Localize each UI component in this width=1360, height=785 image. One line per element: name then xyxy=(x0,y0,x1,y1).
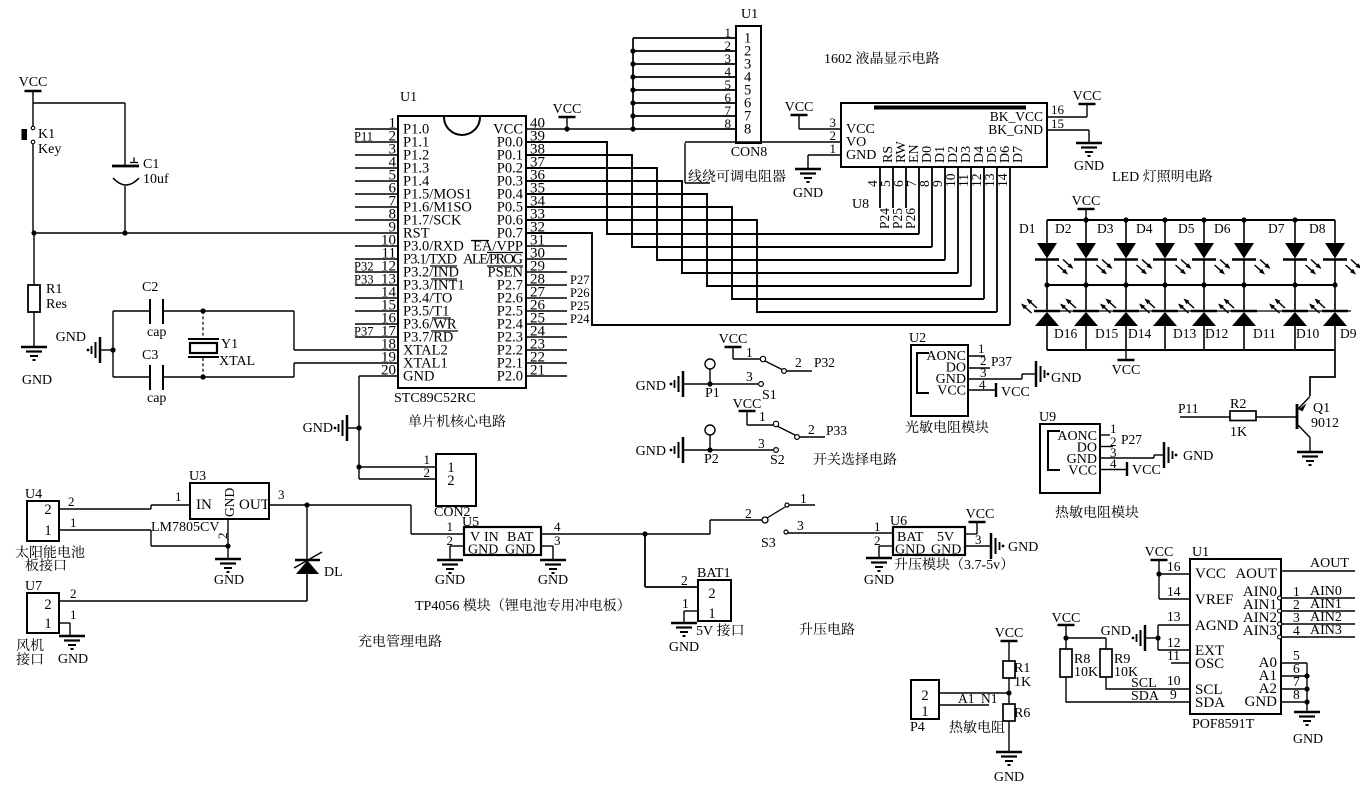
svg-text:1: 1 xyxy=(921,704,928,720)
pin 8 P1.7/SCK xyxy=(355,219,398,221)
wire U2 pin 1 xyxy=(968,355,985,357)
wire P0.2 to LCD D2 xyxy=(526,168,945,260)
wire CON8 pin 3 xyxy=(633,63,736,65)
connector CON2 body xyxy=(436,454,476,506)
svg-text:1: 1 xyxy=(70,515,77,530)
svg-text:4: 4 xyxy=(554,519,561,534)
junction LED top rail xyxy=(1201,217,1206,222)
svg-text:8: 8 xyxy=(1293,687,1300,702)
switch S1 xyxy=(733,358,760,360)
svg-text:VCC: VCC xyxy=(1145,545,1174,560)
label 开关选择电路 xyxy=(814,453,827,465)
svg-text:GND: GND xyxy=(58,652,88,667)
svg-text:2: 2 xyxy=(44,597,51,613)
regulator U3 LM7805CV body xyxy=(190,483,269,519)
svg-text:3.7-5v: 3.7-5v xyxy=(964,558,1000,573)
svg-text:4: 4 xyxy=(1110,456,1117,471)
ground at crystal xyxy=(101,349,113,351)
module U2 photoresistor body xyxy=(911,345,968,416)
svg-text:16: 16 xyxy=(1167,559,1181,574)
junction CON2 pin1 xyxy=(356,464,361,469)
ground at P2 xyxy=(682,437,685,463)
wire AIN2 xyxy=(1278,622,1282,626)
pin 5 P1.4 xyxy=(355,180,398,182)
ground at U9 pin 3 xyxy=(1163,442,1166,468)
junction LED mid rail xyxy=(1292,282,1297,287)
ground at AGND/EXT xyxy=(1146,637,1158,639)
LED D2 xyxy=(1085,220,1087,244)
wire P0.3 to LCD D3 xyxy=(526,181,958,273)
ground at Q1 collector xyxy=(1297,451,1323,454)
ground at U5 pin 2 xyxy=(437,559,463,562)
svg-text:cap: cap xyxy=(147,325,166,340)
svg-text:GND: GND xyxy=(669,640,699,655)
wire POF pin 11 OSC xyxy=(1171,662,1190,664)
wire POF pin 14 VREF xyxy=(1158,574,1160,599)
svg-text:VCC: VCC xyxy=(1132,463,1161,478)
pin 3 P1.2 xyxy=(355,154,398,156)
ground below R6 xyxy=(996,751,1022,754)
svg-text:SDA: SDA xyxy=(1195,695,1225,711)
svg-text:VCC: VCC xyxy=(1001,385,1030,400)
power VCC at LED bottom rail xyxy=(1125,350,1127,360)
power VCC at U2 pin 4 xyxy=(968,389,996,391)
pin 2 P1.1 xyxy=(355,141,398,143)
svg-text:U9: U9 xyxy=(1039,410,1056,425)
svg-text:U6: U6 xyxy=(890,514,907,529)
junction DL branch xyxy=(304,502,309,507)
pin 10 P3.0/RXD xyxy=(355,245,398,247)
wire U3 OUT to U5 xyxy=(269,504,411,506)
svg-text:IN: IN xyxy=(196,497,212,513)
junction LED mid rail xyxy=(1123,282,1128,287)
wire P0.1 to LCD D1 xyxy=(526,155,932,247)
LED D5 xyxy=(1203,220,1205,244)
svg-text:C2: C2 xyxy=(142,280,158,295)
label 升压电路 xyxy=(800,622,813,635)
diode DL zener xyxy=(306,505,308,560)
op-amp U1 STC89C52RC MCU body xyxy=(398,116,526,388)
svg-text:N1: N1 xyxy=(981,691,998,706)
LED D9 xyxy=(1334,285,1336,311)
wire R2 to Q1 base xyxy=(1256,416,1296,418)
svg-text:4: 4 xyxy=(979,377,986,392)
svg-text:D5: D5 xyxy=(1178,221,1195,236)
power VCC at U9 pin 4 xyxy=(1100,469,1127,471)
svg-text:S2: S2 xyxy=(770,453,785,468)
pin 27 P2.6 xyxy=(526,297,567,299)
junction VCC stem xyxy=(564,126,569,131)
wire LCD pin 6 EN xyxy=(905,167,907,208)
wire P0.4 to LCD D4 xyxy=(526,194,971,286)
svg-text:VCC: VCC xyxy=(1112,363,1141,378)
wire LCD pin 9 D2 xyxy=(944,167,946,260)
ground at BAT1 pin 1 xyxy=(671,622,697,625)
wire CON8 pin 2 xyxy=(633,50,736,52)
svg-text:1: 1 xyxy=(44,523,51,539)
pin 24 P2.3 xyxy=(526,336,567,338)
wire U9 pin 3 to ground xyxy=(1100,457,1154,459)
svg-text:1: 1 xyxy=(746,345,753,360)
connector U4 solar panel xyxy=(27,501,59,541)
pin 28 P2.7 xyxy=(526,284,567,286)
wire LED bottom rail xyxy=(1047,349,1335,351)
svg-text:P4: P4 xyxy=(910,720,925,735)
capacitor C1 10uf xyxy=(124,103,126,165)
svg-text:14: 14 xyxy=(1167,584,1181,599)
LED D12 xyxy=(1203,285,1205,311)
ground at U6 pin 3 xyxy=(990,533,993,559)
svg-text:5V: 5V xyxy=(696,624,713,639)
svg-text:15: 15 xyxy=(1051,116,1064,131)
ground at U7 pin 1 xyxy=(59,635,85,638)
svg-text:P32: P32 xyxy=(814,355,835,370)
adc U1 POF8591T body xyxy=(1190,559,1281,714)
wire XTAL1 to pin 19 xyxy=(293,363,295,377)
svg-text:GND: GND xyxy=(1183,449,1213,464)
svg-text:AIN3: AIN3 xyxy=(1310,623,1342,638)
svg-text:GND: GND xyxy=(303,421,333,436)
LED D6 xyxy=(1243,220,1245,244)
pin 4 P1.3 xyxy=(355,167,398,169)
svg-text:13: 13 xyxy=(1167,609,1181,624)
wire U4 pin 1 to GND rail xyxy=(59,529,151,531)
svg-text:POF8591T: POF8591T xyxy=(1192,717,1255,732)
svg-text:VCC: VCC xyxy=(1195,566,1226,582)
svg-text:GND: GND xyxy=(1074,159,1104,174)
wire LCD pin 4 RS xyxy=(879,167,881,208)
wire U9 pin 1 xyxy=(1100,434,1110,436)
svg-text:U1: U1 xyxy=(1192,545,1209,560)
junction CON8 bus xyxy=(630,74,635,79)
svg-text:1: 1 xyxy=(708,606,715,622)
svg-text:D10: D10 xyxy=(1296,326,1319,341)
wire XTAL2 to pin 18 xyxy=(293,311,295,350)
ground at POF address pins xyxy=(1294,711,1320,714)
svg-text:1K: 1K xyxy=(1014,675,1031,690)
resistor R6 xyxy=(1003,704,1015,721)
svg-text:GND: GND xyxy=(864,573,894,588)
wire AIN0 xyxy=(1278,596,1282,600)
switch S2 xyxy=(747,424,773,426)
wire U3 GND pin 2 xyxy=(227,519,229,559)
wire POF pin 12 EXT xyxy=(1157,625,1159,650)
wire VCC to C1 branch xyxy=(33,102,125,104)
wire POF GND pin xyxy=(1281,701,1307,703)
pin 1 P1.0 xyxy=(355,128,398,130)
wire P4 pin 2 A1 xyxy=(939,692,1009,694)
svg-text:P2: P2 xyxy=(704,452,719,467)
pin 26 P2.5 xyxy=(526,310,567,312)
LED D16 xyxy=(1046,285,1048,311)
connector U7 fan xyxy=(27,593,59,633)
pin 15 P3.5/T1 xyxy=(355,310,398,312)
wire P4 pin 1 N1 xyxy=(939,704,989,706)
svg-text:DL: DL xyxy=(324,565,343,580)
svg-text:16: 16 xyxy=(1051,102,1065,117)
svg-text:D7: D7 xyxy=(1011,146,1026,163)
junction LED mid rail xyxy=(1044,282,1049,287)
junction CON8 bus xyxy=(630,126,635,131)
wire LCD pin 16 BK_VCC xyxy=(1047,116,1087,118)
junction LED top rail xyxy=(1123,217,1128,222)
svg-text:S1: S1 xyxy=(762,388,777,403)
svg-text:2: 2 xyxy=(921,688,928,704)
junction CON8 bus xyxy=(630,48,635,53)
svg-text:P24: P24 xyxy=(570,312,590,326)
svg-text:D13: D13 xyxy=(1173,326,1196,341)
junction AGND xyxy=(1155,635,1160,640)
push button P1 xyxy=(705,359,715,369)
wire U6 pin 3 to ground xyxy=(965,545,990,547)
svg-text:GND: GND xyxy=(468,543,498,558)
svg-text:14: 14 xyxy=(995,173,1010,187)
junction CON8 bus xyxy=(630,100,635,105)
wire U2 pin 3 to ground xyxy=(968,378,1022,380)
svg-text:2: 2 xyxy=(708,586,715,602)
svg-text:GND: GND xyxy=(505,543,535,558)
wire U6 pin 2 to ground xyxy=(879,545,893,547)
svg-text:2: 2 xyxy=(681,573,688,588)
pin 11 P3.1/TXD xyxy=(355,258,398,260)
wire P0.0 to LCD D0 xyxy=(526,142,919,234)
svg-text:Y1: Y1 xyxy=(221,337,238,352)
wire POF pin 13 AGND xyxy=(1158,624,1190,626)
wire VCC to R9 xyxy=(1066,637,1106,639)
junction LED top rail xyxy=(1292,217,1297,222)
pin 30 ALE/PROG xyxy=(526,258,567,260)
svg-text:D7: D7 xyxy=(1268,221,1285,236)
svg-text:GND: GND xyxy=(793,186,823,201)
resistor R8 10K xyxy=(1060,649,1072,677)
svg-text:3: 3 xyxy=(758,436,765,451)
wire P0.7 to LCD D7 xyxy=(526,233,1010,325)
svg-text:D15: D15 xyxy=(1095,326,1118,341)
wire LCD pin 1 GND xyxy=(808,154,841,156)
svg-text:GND: GND xyxy=(895,543,925,558)
wire CON8 pin 4 xyxy=(633,76,736,78)
wire A2 xyxy=(1281,688,1307,690)
wire to CON2 pin 1 xyxy=(359,466,436,468)
svg-text:R2: R2 xyxy=(1230,397,1246,412)
svg-text:3: 3 xyxy=(278,487,285,502)
svg-text:GND: GND xyxy=(22,373,52,388)
svg-text:P33: P33 xyxy=(826,423,847,438)
wire LCD pin 8 D1 xyxy=(931,167,933,247)
junction Y1 bottom xyxy=(200,374,205,379)
pin 14 P3.4/TO xyxy=(355,297,398,299)
svg-text:GND: GND xyxy=(636,444,666,459)
svg-text:VCC: VCC xyxy=(937,384,966,399)
wire U7 pin 1 to ground xyxy=(59,622,70,624)
wire LCD pin 10 D3 xyxy=(957,167,959,273)
wire RST net to MCU pin 9 xyxy=(33,232,398,234)
svg-text:GND: GND xyxy=(214,573,244,588)
svg-text:3: 3 xyxy=(746,369,753,384)
svg-text:D12: D12 xyxy=(1205,326,1228,341)
wire AIN3 xyxy=(1278,635,1282,639)
wire A1 xyxy=(1281,675,1307,677)
wire LCD pin 14 D7 xyxy=(1009,167,1011,325)
svg-text:BAT1: BAT1 xyxy=(697,566,730,581)
junction Y1 top xyxy=(200,308,205,313)
wire crystal loop left xyxy=(112,311,114,377)
junction LED mid rail xyxy=(1083,282,1088,287)
pin 22 P2.1 xyxy=(526,362,567,364)
svg-text:U3: U3 xyxy=(189,469,206,484)
junction CON8 bus xyxy=(630,87,635,92)
label 线绕可调电阻器 xyxy=(688,169,701,182)
wire CON8 pin 7 xyxy=(633,115,736,117)
module U9 thermistor body xyxy=(1040,424,1100,493)
svg-text:D16: D16 xyxy=(1054,326,1077,341)
svg-text:GND: GND xyxy=(538,573,568,588)
wire LCD pin 5 RW xyxy=(892,167,894,208)
svg-text:U7: U7 xyxy=(25,579,42,594)
svg-text:1: 1 xyxy=(44,616,51,632)
svg-text:GND: GND xyxy=(1245,694,1278,710)
ground at U3 pin 2 xyxy=(215,558,241,561)
svg-text:3: 3 xyxy=(797,518,804,533)
ground at U6 pin 2 xyxy=(866,557,892,560)
svg-text:GND: GND xyxy=(846,148,876,163)
svg-text:VCC: VCC xyxy=(553,102,582,117)
wire U5 pin 2 to ground xyxy=(450,545,464,547)
svg-text:U2: U2 xyxy=(909,331,926,346)
power VCC at U6 5V pin xyxy=(965,533,977,535)
svg-text:U1: U1 xyxy=(400,90,417,105)
LED D13 xyxy=(1164,285,1166,311)
svg-text:VCC: VCC xyxy=(733,397,762,412)
junction K1/RST xyxy=(31,230,36,235)
LED D1 xyxy=(1046,220,1048,244)
svg-text:9012: 9012 xyxy=(1311,416,1339,431)
svg-text:1: 1 xyxy=(175,489,182,504)
connector P4 body xyxy=(911,680,939,719)
pin name notation lines EA/VPP ALE/PROG xyxy=(471,240,489,242)
svg-text:VCC: VCC xyxy=(1052,611,1081,626)
svg-text:2: 2 xyxy=(68,494,75,509)
svg-text:11: 11 xyxy=(1167,648,1180,663)
svg-text:VCC: VCC xyxy=(1068,464,1097,479)
svg-text:1: 1 xyxy=(70,607,77,622)
svg-text:10: 10 xyxy=(1167,673,1181,688)
wire pin40 VCC to CON8 bus xyxy=(526,128,633,130)
svg-text:D14: D14 xyxy=(1128,326,1151,341)
battery connector BAT1 body xyxy=(698,580,731,621)
wire AIN1 xyxy=(1278,609,1282,613)
svg-text:TP4056: TP4056 xyxy=(415,599,459,614)
ground below R1 xyxy=(21,346,47,349)
svg-text:GND: GND xyxy=(1293,732,1323,747)
resistor R2 1K xyxy=(1230,411,1256,421)
svg-text:SDA: SDA xyxy=(1131,689,1160,704)
wire BAT1 pin 1 to ground xyxy=(684,610,698,612)
svg-text:U8: U8 xyxy=(852,197,869,212)
svg-text:OUT: OUT xyxy=(239,497,270,513)
wire LCD pin 13 D6 xyxy=(996,167,998,312)
svg-text:2: 2 xyxy=(447,473,454,489)
svg-text:U4: U4 xyxy=(25,487,42,502)
pin 12 P3.2/IND xyxy=(355,271,398,273)
junction R8/R9 xyxy=(1063,635,1068,640)
junction LED mid rail xyxy=(1241,282,1246,287)
svg-text:D8: D8 xyxy=(1309,221,1326,236)
svg-text:D9: D9 xyxy=(1340,326,1357,341)
svg-text:LED: LED xyxy=(1112,170,1139,185)
svg-text:Res: Res xyxy=(46,297,67,312)
junction LED top rail xyxy=(1241,217,1246,222)
label 升压模块 xyxy=(895,557,908,570)
svg-text:GND: GND xyxy=(636,379,666,394)
svg-text:AGND: AGND xyxy=(1195,618,1238,634)
wire LED top rail xyxy=(1047,219,1335,221)
svg-text:cap: cap xyxy=(147,391,166,406)
wire P0.6 to LCD D6 xyxy=(526,220,997,312)
svg-text:P1: P1 xyxy=(705,386,720,401)
svg-text:C1: C1 xyxy=(143,157,159,172)
LED D7 xyxy=(1294,220,1296,244)
svg-text:2: 2 xyxy=(215,533,230,540)
wire address bus to ground xyxy=(1306,663,1308,712)
svg-text:21: 21 xyxy=(530,363,545,379)
svg-text:1: 1 xyxy=(682,596,689,611)
LCD module U8 1602 body xyxy=(841,103,1047,167)
pin 7 P1.6/M1SO xyxy=(355,206,398,208)
svg-text:GND: GND xyxy=(222,488,237,517)
label 热敏电阻 xyxy=(950,720,963,733)
junction LED top rail xyxy=(1083,217,1088,222)
svg-text:K1: K1 xyxy=(38,127,55,142)
svg-text:U5: U5 xyxy=(462,515,479,530)
svg-text:GND: GND xyxy=(1008,540,1038,555)
switch K1 (Key) xyxy=(32,103,34,126)
wire U2 pin 2 P37 xyxy=(968,367,990,369)
ground at U2 pin 3 xyxy=(1035,361,1038,387)
junction CON8 bus xyxy=(630,61,635,66)
svg-text:P11: P11 xyxy=(354,130,373,144)
junction LED mid rail xyxy=(1162,282,1167,287)
svg-text:R6: R6 xyxy=(1014,706,1030,721)
pin 31 EA/VPP xyxy=(526,245,567,247)
svg-text:VCC: VCC xyxy=(19,75,48,90)
pin 29 PSEN xyxy=(526,271,567,273)
junction LED mid rail xyxy=(1332,282,1337,287)
svg-text:GND: GND xyxy=(1051,371,1081,386)
wire U4 pin 2 to U3 IN xyxy=(59,508,151,510)
svg-text:1: 1 xyxy=(874,519,881,534)
resistor R1 1K (divider) xyxy=(1003,661,1015,678)
svg-text:10uf: 10uf xyxy=(143,172,169,187)
svg-text:AIN3: AIN3 xyxy=(1243,623,1277,639)
wire CON8 pin 6 xyxy=(633,102,736,104)
LED D11 xyxy=(1243,285,1245,311)
LED D10 xyxy=(1294,285,1296,311)
svg-text:VCC: VCC xyxy=(966,507,995,522)
svg-text:3: 3 xyxy=(554,533,561,548)
LED D4 xyxy=(1164,220,1166,244)
svg-text:P2.0: P2.0 xyxy=(497,369,523,385)
pin 16 P3.6/WR xyxy=(355,323,398,325)
LED D3 xyxy=(1125,220,1127,244)
wire U5 pin 3 to ground xyxy=(541,545,553,547)
wire LCD pin 15 BK_GND xyxy=(1047,129,1089,131)
svg-text:AOUT: AOUT xyxy=(1310,556,1349,571)
svg-text:P27: P27 xyxy=(1121,432,1142,447)
svg-text:OSC: OSC xyxy=(1195,656,1224,672)
svg-text:XTAL: XTAL xyxy=(219,354,255,369)
wire LCD pin 3 xyxy=(799,128,841,130)
